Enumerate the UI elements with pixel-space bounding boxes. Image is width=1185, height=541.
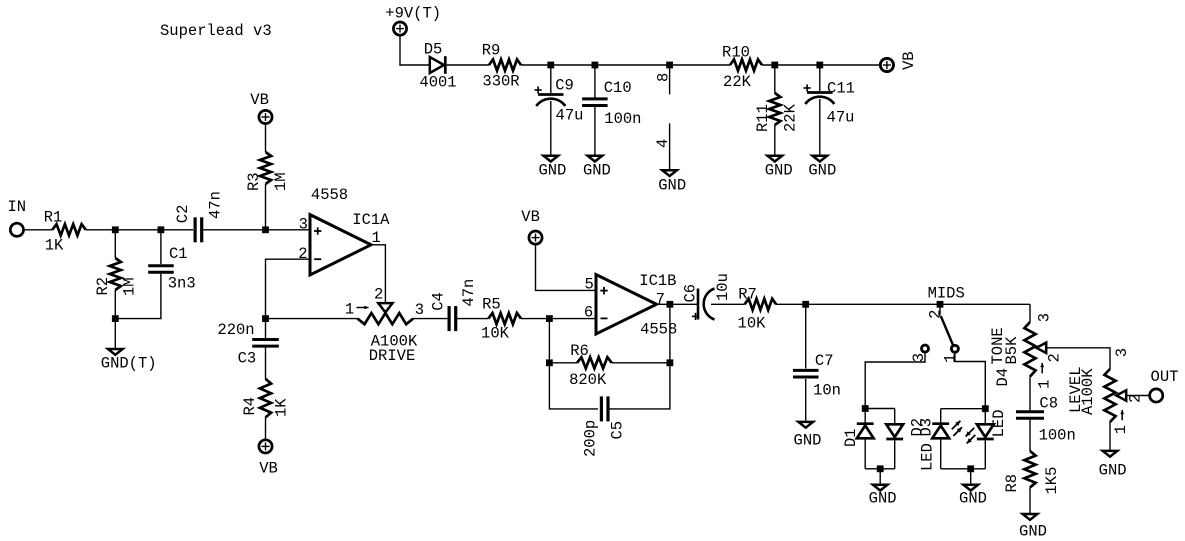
svg-text:VB: VB — [250, 91, 269, 109]
wire C2 to IC1A pin3 — [202, 229, 310, 231]
diode D5 4001 — [430, 57, 444, 73]
wire pin 8 stub — [669, 65, 671, 94]
svg-text:GND: GND — [869, 490, 897, 508]
ground R8 — [1023, 514, 1038, 520]
resistor R7 10K — [745, 299, 776, 310]
capacitor C4 47n — [448, 306, 451, 331]
wire LEVEL to GND — [1109, 422, 1111, 450]
wire C7 to GND — [805, 379, 807, 421]
node C11 — [816, 62, 823, 69]
resistor R4 1K — [260, 379, 271, 418]
svg-text:R9: R9 — [482, 42, 501, 60]
potentiometer LEVEL A100K — [1104, 369, 1115, 422]
svg-text:1K: 1K — [273, 398, 291, 417]
node pin 8 — [666, 62, 673, 69]
node GND(T) — [112, 315, 119, 322]
svg-text:IC1A: IC1A — [352, 211, 390, 229]
wire throw1 to D3D4 — [955, 353, 985, 409]
node C10 — [592, 62, 599, 69]
svg-text:D3: D3 — [918, 418, 936, 437]
wire to GND D3D4 — [970, 469, 972, 484]
svg-text:1K5: 1K5 — [1043, 467, 1061, 495]
wire to D4 — [984, 409, 986, 425]
svg-text:2: 2 — [298, 245, 307, 263]
svg-text:R4: R4 — [241, 397, 259, 416]
svg-text:1: 1 — [1036, 380, 1054, 389]
wire D5 to R9 — [447, 64, 489, 66]
capacitor C2 47n — [194, 217, 197, 242]
svg-text:OUT: OUT — [1151, 368, 1179, 386]
svg-text:3n3: 3n3 — [168, 274, 196, 292]
terminal VB right — [880, 58, 893, 71]
wire C3 to R4 — [265, 347, 267, 379]
wire node to C3 — [265, 319, 267, 339]
svg-text:GND: GND — [658, 177, 686, 195]
svg-text:R2: R2 — [94, 277, 112, 296]
resistor R3 1M — [260, 152, 271, 184]
svg-text:200p: 200p — [582, 420, 600, 457]
svg-text:10K: 10K — [738, 315, 767, 333]
terminal VB R3 — [259, 110, 272, 123]
wire node to R2 — [114, 230, 116, 258]
svg-text:8: 8 — [654, 73, 672, 82]
wire node to GND(T) — [114, 319, 116, 348]
svg-text:GND(T): GND(T) — [101, 355, 157, 373]
ground LEVEL — [1103, 451, 1118, 457]
wire D3D4 top rail — [941, 408, 986, 410]
switch throw 3 — [922, 345, 929, 352]
svg-text:D1: D1 — [842, 428, 860, 447]
wire node to C11 — [819, 65, 821, 91]
wire C11 to GND — [819, 99, 821, 155]
diode D2 — [886, 424, 903, 437]
wire D1D2 bottom rail — [865, 468, 895, 470]
capacitor C7 10n — [793, 369, 819, 372]
wire to D3 — [940, 409, 942, 423]
node D1D2 top — [862, 405, 869, 412]
svg-text:R6: R6 — [570, 342, 589, 360]
wire R6 to right node — [612, 362, 670, 364]
svg-text:MIDS: MIDS — [928, 285, 965, 303]
wire MIDS stub — [939, 304, 941, 315]
svg-text:47n: 47n — [460, 279, 478, 307]
ground C9 — [544, 156, 559, 162]
svg-text:GND: GND — [765, 162, 793, 180]
wire R2 to gnd node — [114, 290, 116, 319]
resistor R11 22K — [769, 93, 780, 125]
svg-text:10n: 10n — [813, 382, 841, 400]
svg-text:330R: 330R — [482, 73, 519, 91]
node R2 top — [112, 226, 119, 233]
svg-text:4558: 4558 — [640, 321, 677, 339]
resistor R1 1K — [52, 224, 86, 235]
wire node to C1 — [160, 230, 162, 264]
node C1 top — [158, 226, 165, 233]
wire C5 to right node — [608, 363, 670, 409]
wire node to C10 — [594, 65, 596, 98]
svg-text:220n: 220n — [217, 321, 254, 339]
wire R5 to IC1B pin6 — [521, 318, 596, 320]
svg-text:C9: C9 — [555, 77, 574, 95]
ground C7 — [798, 422, 813, 428]
wire throw3 to D1D2 — [865, 353, 925, 409]
wire D3D4 bottom rail — [941, 468, 986, 470]
svg-text:VB: VB — [259, 460, 278, 478]
wire +9V to D5 — [400, 35, 429, 65]
node MIDS — [937, 301, 944, 308]
svg-text:2: 2 — [374, 285, 383, 303]
svg-text:IC1B: IC1B — [639, 272, 676, 290]
ground C11 — [813, 156, 828, 162]
ground R11 — [768, 156, 783, 162]
svg-text:R7: R7 — [738, 285, 757, 303]
capacitor C11 47u — [807, 91, 832, 94]
svg-text:100n: 100n — [1039, 427, 1076, 445]
wire R8 to GND — [1029, 487, 1031, 513]
wire node down to R6 — [548, 319, 550, 363]
wire IC1A out to wiper — [371, 245, 385, 303]
svg-text:LED: LED — [918, 443, 936, 471]
node D3D4 top — [982, 405, 989, 412]
svg-text:7: 7 — [656, 291, 665, 309]
wire to D2 — [894, 409, 896, 425]
svg-text:3: 3 — [299, 216, 308, 234]
svg-text:D4: D4 — [994, 368, 1012, 387]
node R5 out — [546, 315, 553, 322]
switch MIDS lever — [941, 316, 953, 346]
wire C4 to R5 — [456, 318, 489, 320]
capacitor C5 200p — [600, 396, 603, 421]
svg-text:R5: R5 — [482, 296, 501, 314]
wire TONE wiper to LEVEL — [1046, 348, 1110, 369]
svg-text:2: 2 — [1046, 353, 1064, 362]
svg-text:C6: C6 — [682, 284, 700, 303]
wire C1 to gnd node — [115, 274, 161, 319]
wire C8 to R8 — [1029, 420, 1031, 451]
svg-text:VB: VB — [521, 208, 540, 226]
svg-text:820K: 820K — [569, 371, 607, 389]
node D1D2 bottom — [877, 465, 884, 472]
resistor R2 1M — [110, 258, 121, 290]
svg-text:4: 4 — [654, 139, 672, 148]
wire C6 to R7 — [711, 303, 745, 305]
svg-text:10K: 10K — [481, 325, 510, 343]
node R11 — [771, 62, 778, 69]
resistor R9 330R — [489, 59, 521, 70]
wire node to C7 — [805, 304, 807, 368]
terminal +9V(T) — [393, 22, 406, 35]
svg-text:47u: 47u — [556, 107, 584, 125]
switch throw 1 — [951, 345, 958, 352]
svg-text:1M: 1M — [121, 277, 139, 296]
svg-text:22K: 22K — [723, 73, 752, 91]
svg-text:C10: C10 — [604, 79, 632, 97]
svg-text:C11: C11 — [827, 80, 855, 98]
node C7 — [802, 301, 809, 308]
wire TONE to C8 — [1029, 377, 1031, 411]
svg-text:R10: R10 — [722, 43, 750, 61]
wire D2 to bottom — [894, 440, 896, 469]
ground GND(T) — [108, 349, 123, 355]
wire node up to output — [669, 304, 671, 363]
svg-text:47u: 47u — [827, 109, 855, 127]
wire to GND D1D2 — [879, 469, 881, 484]
ground D1D2 — [873, 485, 888, 491]
node C3 top — [262, 315, 269, 322]
ground D3D4 — [963, 485, 978, 491]
svg-text:6: 6 — [584, 304, 593, 322]
resistor R6 820K — [577, 357, 612, 368]
resistor R10 22K — [730, 59, 762, 70]
capacitor C8 100n — [1016, 410, 1044, 413]
diode D1 — [857, 422, 874, 425]
svg-text:DRIVE: DRIVE — [369, 347, 416, 365]
wire pin 4 stub — [669, 123, 671, 169]
resistor R8 1K5 — [1024, 451, 1035, 487]
svg-text:R11: R11 — [754, 104, 772, 132]
svg-text:3: 3 — [1036, 313, 1054, 322]
wire R7 to TONE — [776, 303, 1030, 305]
svg-text:3: 3 — [1113, 348, 1131, 357]
wire VB to IC1B pin5 — [536, 244, 597, 290]
node C9 — [547, 62, 554, 69]
svg-text:GND: GND — [808, 162, 836, 180]
svg-text:IN: IN — [7, 198, 26, 216]
svg-text:LED: LED — [990, 409, 1008, 437]
svg-text:47n: 47n — [206, 191, 224, 219]
potentiometer DRIVE A100K — [358, 313, 414, 324]
op-amp IC1B 4558 — [596, 275, 657, 335]
svg-text:C2: C2 — [174, 205, 192, 224]
wire VB to R3 — [265, 124, 267, 152]
wire R10 to VB terminal — [762, 64, 880, 66]
capacitor C9 47u — [538, 93, 563, 96]
svg-text:1M: 1M — [272, 172, 290, 191]
node R3 bottom — [262, 226, 269, 233]
node R6 left — [546, 359, 553, 366]
resistor R5 10K — [488, 313, 521, 324]
svg-text:C8: C8 — [1039, 395, 1058, 413]
terminal VB IC1B — [529, 231, 542, 244]
svg-text:B5K: B5K — [1003, 336, 1021, 365]
capacitor C10 100n — [582, 97, 608, 100]
wire node to pot DRIVE — [266, 318, 358, 320]
wire D3 to bottom — [940, 439, 942, 469]
node IC1B out — [667, 301, 674, 308]
svg-text:GND: GND — [1099, 461, 1127, 479]
wire to R6 — [549, 362, 577, 364]
svg-text:Superlead v3: Superlead v3 — [160, 22, 272, 40]
capacitor C6 10u — [697, 289, 700, 320]
terminal IN — [10, 223, 23, 236]
wire C10 to GND — [594, 107, 596, 155]
potentiometer TONE B5K — [1024, 322, 1035, 377]
svg-text:3: 3 — [415, 301, 424, 319]
svg-text:R8: R8 — [1003, 474, 1021, 493]
svg-text:10u: 10u — [714, 273, 732, 301]
wire R4 to VB — [265, 417, 267, 440]
svg-text:GND: GND — [583, 162, 611, 180]
wire D1D2 top rail — [865, 408, 895, 410]
svg-text:C3: C3 — [238, 350, 257, 368]
svg-text:C7: C7 — [815, 352, 834, 370]
svg-text:GND: GND — [794, 431, 822, 449]
svg-text:4001: 4001 — [419, 74, 456, 92]
capacitor C1 3n3 — [148, 264, 174, 267]
svg-text:GND: GND — [538, 162, 566, 180]
wire IC1B out — [657, 303, 698, 305]
wire node to R11 — [774, 65, 776, 93]
node D3D4 bottom — [967, 465, 974, 472]
svg-text:VB: VB — [900, 51, 918, 70]
diode D4 LED — [977, 424, 994, 437]
wire IC1A pin2 feedback — [266, 259, 311, 318]
svg-text:4558: 4558 — [311, 186, 348, 204]
wire D4 to bottom — [984, 440, 986, 469]
node R6 right — [667, 359, 674, 366]
wire R3 to node — [265, 184, 267, 230]
svg-text:R1: R1 — [44, 209, 63, 227]
svg-text:1: 1 — [1112, 425, 1130, 434]
svg-text:C4: C4 — [430, 292, 448, 311]
wire LEVEL wiper to OUT — [1126, 395, 1150, 397]
svg-text:C5: C5 — [608, 421, 626, 440]
svg-text:GND: GND — [959, 490, 987, 508]
svg-text:1: 1 — [345, 300, 354, 318]
ground C10 — [588, 156, 603, 162]
wire to D1 — [864, 409, 866, 424]
svg-text:C1: C1 — [169, 245, 188, 263]
svg-text:A100K: A100K — [1079, 368, 1097, 415]
diode D3 LED — [932, 422, 949, 425]
wire MIDS rail to TONE — [1029, 304, 1031, 322]
svg-text:D5: D5 — [424, 40, 443, 58]
svg-text:2: 2 — [926, 310, 944, 319]
svg-text:100n: 100n — [604, 110, 641, 128]
svg-text:R3: R3 — [245, 172, 263, 191]
op-amp IC1A 4558 — [310, 215, 371, 275]
ground pin 4 — [662, 170, 677, 176]
wire R9 to R10 — [521, 64, 730, 66]
wire pot to C4 — [413, 318, 447, 320]
svg-text:GND: GND — [1019, 522, 1047, 540]
svg-text:1K: 1K — [45, 237, 64, 255]
wire IN to R1 — [23, 229, 52, 231]
wire node to C9 — [550, 65, 552, 93]
svg-text:22K: 22K — [781, 103, 799, 132]
terminal VB R4 — [259, 440, 272, 453]
svg-text:+9V(T): +9V(T) — [385, 5, 441, 23]
svg-text:5: 5 — [585, 275, 594, 293]
wire C9 to GND — [550, 101, 552, 155]
wire R1 to C2 — [86, 229, 193, 231]
wire D1 to bottom — [864, 439, 866, 469]
wire down to C5 — [549, 363, 598, 409]
wire R11 to GND — [774, 125, 776, 155]
